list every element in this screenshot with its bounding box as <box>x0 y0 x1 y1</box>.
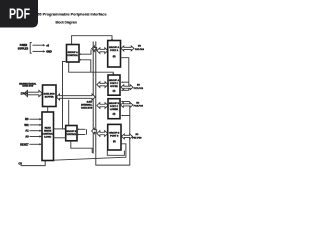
svg-text:Block Diagram: Block Diagram <box>55 21 77 25</box>
svg-text:I/O: I/O <box>138 45 141 47</box>
input RESET <box>20 143 42 146</box>
wire: rail from group A control down to group B control <box>63 62 67 130</box>
svg-text:GROUP B: GROUP B <box>109 103 120 105</box>
svg-text:(4): (4) <box>113 113 116 116</box>
svg-text:PA7-PA0: PA7-PA0 <box>135 48 145 51</box>
wire: branch up into group A control right side (lower arrow) <box>79 59 91 72</box>
label POWER SUPPLIES <box>18 44 29 50</box>
power brace <box>30 43 32 54</box>
svg-text:PC3-PC0: PC3-PC0 <box>134 106 144 108</box>
svg-text:GROUP A: GROUP A <box>68 51 79 54</box>
PDF badge <box>0 0 38 28</box>
wire +5 with arrowhead <box>33 44 50 47</box>
fat arrow: port C lower to I/O PC3-PC0 <box>121 102 133 107</box>
svg-text:I/O: I/O <box>137 85 140 87</box>
label BIDIRECTIONAL DATA BUS <box>19 82 37 87</box>
input A0 <box>25 135 42 138</box>
svg-text:PORT B: PORT B <box>110 135 119 137</box>
svg-text:PDF: PDF <box>9 5 30 22</box>
svg-text:DATA BUS: DATA BUS <box>22 85 33 88</box>
svg-text:WR: WR <box>24 124 28 127</box>
wire GND with arrowhead <box>33 50 52 53</box>
svg-text:(4): (4) <box>113 90 116 93</box>
svg-text:(8): (8) <box>113 56 116 58</box>
input A1 <box>25 130 42 133</box>
svg-text:8-BIT: 8-BIT <box>87 102 93 104</box>
svg-text:PC7-PC4: PC7-PC4 <box>134 87 144 90</box>
svg-text:CONTROL: CONTROL <box>67 55 78 57</box>
block: read/write control logic <box>42 112 54 161</box>
svg-text:READ: READ <box>45 126 52 129</box>
svg-text:I/O: I/O <box>135 134 138 136</box>
wire: hook from group B control bottom <box>71 141 94 153</box>
svg-text:GROUP B: GROUP B <box>66 131 77 133</box>
fat arrow: port A to I/O PA7-PA0 <box>121 46 134 51</box>
block: group B port B <box>108 124 121 150</box>
svg-text:PORT A: PORT A <box>110 49 119 52</box>
svg-text:UPPER: UPPER <box>110 86 118 88</box>
wire: r/w control to rail <box>54 128 63 130</box>
svg-text:LOWER: LOWER <box>110 109 119 111</box>
svg-text:GROUP A: GROUP A <box>109 79 120 82</box>
label 8-BIT INTERNAL DATA BUS <box>81 102 93 110</box>
block: data bus buffer <box>43 85 57 107</box>
fat arrow: internal bus to port C upper (bidirectional) <box>97 82 108 88</box>
svg-text:CONTROL: CONTROL <box>42 133 53 135</box>
svg-text:DATA BUS: DATA BUS <box>44 92 55 95</box>
svg-text:GROUP B: GROUP B <box>109 132 120 134</box>
fat arrow: port C upper to I/O PC7-PC4 <box>121 85 133 90</box>
svg-text:D7-D0: D7-D0 <box>21 92 29 95</box>
wire: buffer to read/write control logic <box>47 107 49 113</box>
block: group A port A <box>108 41 121 68</box>
fat arrow: port B to I/O PB7-PB0 <box>122 134 133 139</box>
svg-text:CS: CS <box>19 162 23 165</box>
internal data bus (vertical) <box>92 42 94 153</box>
wire: rail port A right down into port C upper right side <box>121 58 129 91</box>
input RD <box>25 118 42 121</box>
wire: r/w control to group B control lower <box>54 137 66 139</box>
fat arrow: internal bus to group B control <box>92 128 97 134</box>
svg-text:GND: GND <box>46 51 52 54</box>
svg-text:WRITE: WRITE <box>44 130 52 132</box>
svg-text:BUFFER: BUFFER <box>45 96 54 98</box>
svg-text:8255 Programmable Peripheral I: 8255 Programmable Peripheral Interface <box>33 13 107 17</box>
block: group B control <box>66 126 78 141</box>
fat arrow: internal bus to port C lower (bidirectional) <box>97 103 108 109</box>
fat arrow: data bus buffer to internal bus (bidirectional) <box>56 94 95 100</box>
svg-text:SUPPLIES: SUPPLIES <box>18 47 29 50</box>
wire: group A control top to port A top <box>72 36 113 45</box>
svg-text:LOGIC: LOGIC <box>44 136 51 138</box>
wire: arrows into group B control right side <box>77 128 86 135</box>
svg-text:RESET: RESET <box>20 143 29 146</box>
label I/O PC7-PC4 <box>134 85 144 90</box>
wire: group B control top stub <box>68 100 70 126</box>
wire: bottom line 1 from r/w logic to port B right side <box>54 144 126 160</box>
svg-text:CONTROL: CONTROL <box>66 134 77 136</box>
fat arrow: internal bus to port B (bidirectional) <box>97 131 108 137</box>
fat arrow: internal bus to group A control <box>92 46 97 52</box>
label I/O PA7-PA0 <box>135 45 145 50</box>
svg-text:INTERNAL: INTERNAL <box>81 104 93 107</box>
block: group B port C lower <box>108 99 120 119</box>
wire: arrow into group A control right side (upper arrow) <box>79 50 91 55</box>
block: group A control <box>67 45 80 63</box>
svg-text:DATA BUS: DATA BUS <box>81 106 92 109</box>
label I/O PB7-PB0 <box>132 134 142 139</box>
svg-text:RD: RD <box>25 118 29 121</box>
wire: bottom line 2 up right rail into port C lower right side <box>96 101 130 166</box>
svg-text:GROUP A: GROUP A <box>109 46 120 49</box>
svg-text:(8): (8) <box>113 141 116 143</box>
fat arrow: internal bus to port A (bidirectional) <box>97 48 108 54</box>
svg-text:PORT C: PORT C <box>110 83 119 85</box>
block: group A port C upper <box>108 75 120 95</box>
wire: group A control bottom to port C upper top <box>69 62 115 75</box>
input CS <box>19 160 47 165</box>
fat arrow: D7-D0 to data bus buffer (bidirectional) <box>24 90 42 96</box>
svg-text:PORT C: PORT C <box>110 106 119 108</box>
input WR <box>24 124 41 127</box>
wire: stub under port B <box>107 151 124 156</box>
svg-text:I/O: I/O <box>136 103 139 105</box>
label I/O PC3-PC0 <box>134 103 144 108</box>
svg-text:PB7-PB0: PB7-PB0 <box>132 138 142 140</box>
